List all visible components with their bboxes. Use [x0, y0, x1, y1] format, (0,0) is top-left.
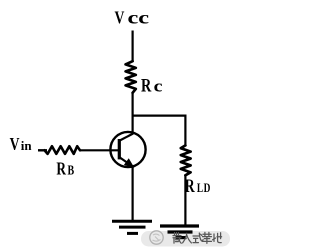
resistor RB	[45, 146, 81, 154]
wire collector node to RLD branch	[132, 114, 186, 116]
wire Vin to RB	[38, 149, 47, 151]
wire emitter to ground	[132, 166, 134, 221]
watermark text 嵌入式基地	[173, 232, 222, 243]
ground (RLD)	[160, 226, 199, 238]
wire Vcc to Rc	[132, 31, 134, 62]
svg-text:c: c	[128, 7, 139, 27]
watermark logo circle	[150, 231, 163, 244]
resistor Rc	[126, 61, 136, 93]
svg-text:R: R	[141, 75, 152, 96]
ground (emitter)	[112, 221, 152, 233]
watermark strip	[141, 231, 230, 247]
svg-text:RLD: RLD	[185, 175, 211, 197]
svg-text:RB: RB	[56, 160, 74, 179]
svg-text:V: V	[10, 136, 20, 155]
wire branch down to RLD	[184, 115, 186, 146]
svg-text:c: c	[154, 78, 163, 96]
resistor RLD	[181, 145, 191, 175]
svg-text:in: in	[21, 138, 33, 153]
svg-text:V: V	[115, 9, 125, 28]
transistor Q1	[110, 132, 145, 167]
wire RLD to ground	[184, 176, 186, 226]
wire RB to base	[80, 149, 120, 151]
wire Rc to collector node	[132, 93, 134, 135]
svg-text:c: c	[138, 7, 149, 27]
